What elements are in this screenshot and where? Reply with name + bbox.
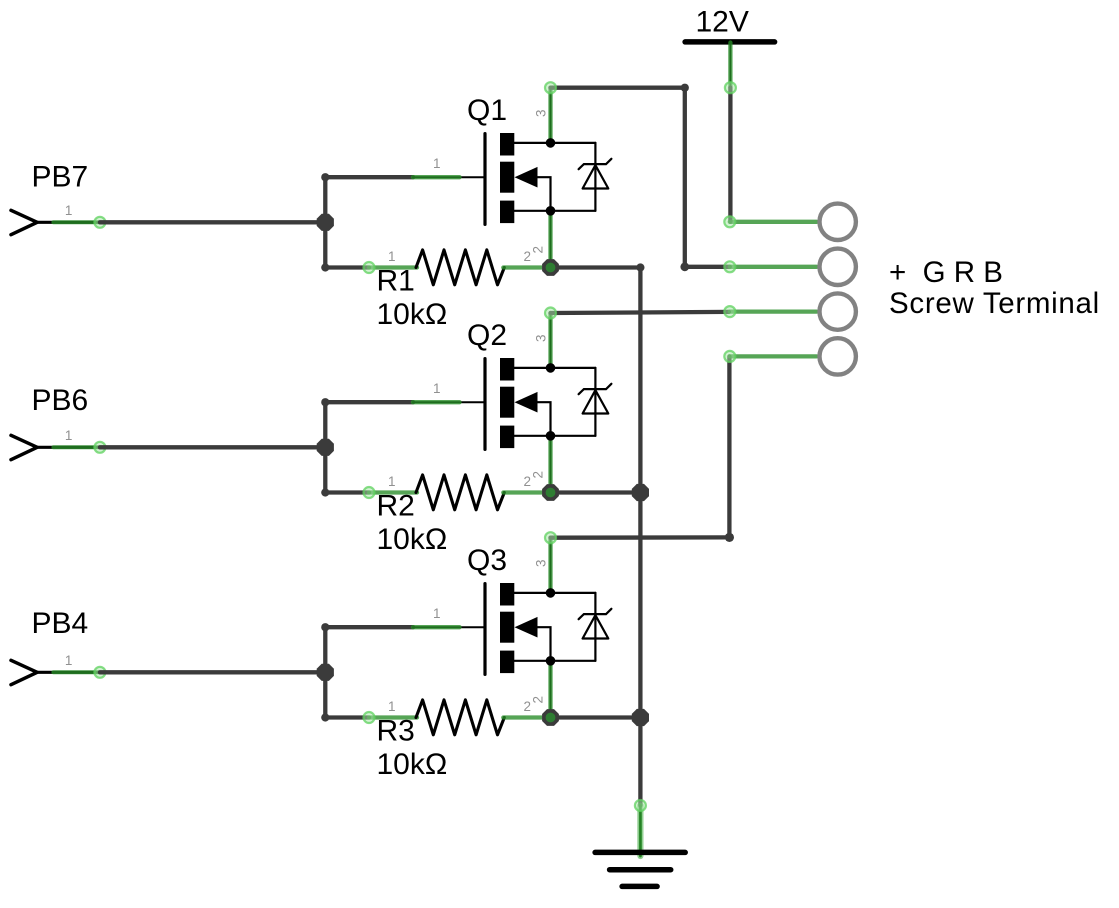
pin label 1 of PB6 (65, 428, 73, 443)
power symbol 12V bar (685, 39, 775, 45)
resistor R3 zigzag (416, 700, 504, 735)
terminal dot ground (635, 800, 646, 811)
pin label 2 of Q1 (rotated) (531, 246, 546, 254)
ground pin leg (639, 806, 641, 857)
transistor Q1 (N-MOSFET with body diode) (413, 88, 611, 268)
node bend Q2 gate (321, 398, 329, 406)
pin label 1 of PB7 (65, 203, 73, 218)
svg-text:10kΩ: 10kΩ (377, 523, 448, 556)
screw terminal lead G (730, 265, 817, 269)
svg-text:2: 2 (531, 246, 546, 254)
resistor R2 value label 10k (377, 523, 448, 556)
input connector PB6 chevron (11, 435, 37, 459)
wire to Q1 gate (325, 175, 413, 179)
terminal dot 12V (725, 82, 736, 93)
screw terminal lead R (730, 309, 817, 313)
screw terminal circle R (820, 293, 856, 329)
screw terminal circle + (12V) (820, 204, 856, 240)
wire PB6 to junction (100, 445, 325, 449)
svg-text:1: 1 (433, 606, 441, 621)
wire Q1 source junction to ground rail (551, 265, 641, 269)
svg-text:1: 1 (388, 249, 396, 264)
svg-text:3: 3 (534, 559, 549, 567)
svg-text:10kΩ: 10kΩ (377, 748, 448, 781)
ground symbol (595, 852, 685, 886)
terminal dot screw pin 1 (724, 216, 735, 227)
transistor Q2 (N-MOSFET with body diode) (413, 313, 611, 493)
wire ground rail (638, 268, 642, 806)
screw terminal label line 1 (889, 256, 1003, 289)
wire Q1 drain horizontal (551, 86, 685, 90)
transistor Q3 (N-MOSFET with body diode) (413, 538, 611, 718)
terminal dot Q2 pin 3 (545, 308, 556, 319)
node bend ground rail top (636, 263, 644, 271)
wire PB7 to junction (100, 220, 325, 224)
input connector PB7 label (32, 161, 89, 194)
pin label 2 of R3 (524, 699, 532, 714)
svg-text:R2: R2 (377, 490, 415, 523)
node bend R2 (321, 488, 329, 496)
svg-text:12V: 12V (696, 6, 749, 39)
node Q3 source junction (542, 709, 559, 726)
screw terminal circle B (820, 338, 856, 374)
pin label 1 of Q1 gate (433, 156, 441, 171)
node bend R1 (321, 263, 329, 271)
resistor R2 zigzag (416, 475, 504, 510)
terminal dot R1 pin 1 (364, 262, 375, 273)
node Q1 source junction (542, 259, 559, 276)
transistor Q3 label (467, 544, 507, 577)
svg-text:3: 3 (534, 334, 549, 342)
terminal dot R3 pin 1 (364, 712, 375, 723)
node bend Q1 gate (321, 173, 329, 181)
node junction ground rail / R2 row (632, 484, 649, 501)
pin label 1 of R1 (388, 249, 396, 264)
resistor R1 left leg (369, 265, 417, 269)
svg-text:10kΩ: 10kΩ (377, 298, 448, 331)
pin label 1 of PB4 (65, 653, 73, 668)
wire to R1 left lead (325, 265, 369, 269)
node bend Q3 drain rail bottom (725, 533, 734, 542)
svg-text:Screw Terminal: Screw Terminal (889, 287, 1100, 320)
node PB6 junction (317, 439, 334, 456)
screw terminal label line 2 (889, 287, 1100, 320)
node bend Q3 gate (321, 623, 329, 631)
resistor R1 value label 10k (377, 298, 448, 331)
wire left vertical Q2 gate/resistor (323, 402, 327, 492)
pin label 1 of Q3 gate (433, 606, 441, 621)
svg-text:R3: R3 (377, 715, 415, 748)
svg-text:1: 1 (433, 381, 441, 396)
resistor R3 left leg (369, 715, 417, 719)
wire to Q3 gate (325, 625, 413, 629)
node bend Q1 drain rail top (681, 84, 689, 92)
pin label 2 of R2 (524, 474, 532, 489)
wire Q1 drain rail down (683, 88, 687, 267)
svg-text:1: 1 (65, 653, 73, 668)
svg-text:1: 1 (65, 428, 73, 443)
wire Q2 drain horizontal (551, 312, 729, 313)
input connector PB4 label (32, 607, 89, 640)
pin label 1 of R3 (388, 699, 396, 714)
svg-text:3: 3 (534, 109, 549, 117)
svg-text:1: 1 (388, 474, 396, 489)
wire PB4 to junction (100, 670, 325, 674)
terminal dot Q3 pin 3 (545, 532, 556, 543)
terminal dot screw pin 4 (724, 351, 735, 362)
pin label 2 of Q3 (rotated) (531, 696, 546, 704)
input connector PB7 chevron (11, 210, 37, 234)
svg-text:1: 1 (65, 203, 73, 218)
svg-text:Q3: Q3 (467, 544, 507, 577)
wire to Q2 gate (325, 400, 413, 404)
input connector PB6 label (32, 384, 89, 417)
wire Q3 drain rail up to screw pin 4 (727, 356, 731, 537)
screw terminal circle G (820, 249, 856, 285)
power symbol 12V label (696, 6, 749, 39)
resistor R2 value label R2 (377, 490, 415, 523)
node PB7 junction (317, 214, 334, 231)
node Q2 source junction (542, 484, 559, 501)
node PB4 junction (317, 664, 334, 681)
input connector PB4 chevron (11, 660, 37, 684)
svg-text:+ G R B: + G R B (889, 256, 1003, 289)
svg-text:R1: R1 (377, 265, 415, 298)
terminal dot R2 pin 1 (364, 487, 375, 498)
resistor R3 value label R3 (377, 715, 415, 748)
terminal dot screw pin 3 (724, 306, 735, 317)
screw terminal lead B (730, 354, 817, 358)
resistor R1 right leg (503, 265, 550, 269)
input connector PB6 pin leg (37, 446, 98, 449)
svg-text:2: 2 (531, 471, 546, 479)
node bend R3 (321, 713, 329, 721)
svg-text:Q1: Q1 (467, 94, 507, 127)
terminal dot Q1 pin 3 (545, 82, 556, 93)
resistor R3 right leg (503, 715, 550, 719)
terminal dot screw pin 2 (724, 261, 735, 272)
svg-text:PB6: PB6 (32, 384, 89, 417)
resistor R2 right leg (503, 490, 550, 494)
terminal dot PB6 pin 1 (94, 442, 105, 453)
node bend Q1 drain rail bottom (680, 262, 689, 271)
resistor R1 zigzag (416, 250, 504, 285)
svg-text:PB4: PB4 (32, 607, 89, 640)
pin label 2 of R1 (524, 249, 532, 264)
screw terminal lead + (12V) (730, 220, 817, 224)
input connector PB4 pin leg (37, 671, 98, 674)
pin label 1 of Q2 gate (433, 381, 441, 396)
terminal dot PB7 pin 1 (94, 217, 105, 228)
wire left vertical Q3 gate/resistor (323, 627, 327, 717)
resistor R3 value label 10k (377, 748, 448, 781)
pin label 3 of Q2 (rotated) (534, 334, 549, 342)
transistor Q2 label (467, 319, 507, 352)
pin label 1 of R2 (388, 474, 396, 489)
resistor R1 value label R1 (377, 265, 415, 298)
resistor R2 left leg (369, 490, 417, 494)
wire to R2 left lead (325, 490, 369, 494)
svg-text:PB7: PB7 (32, 161, 89, 194)
svg-text:2: 2 (531, 696, 546, 704)
transistor Q1 label (467, 94, 507, 127)
power symbol 12V pin leg (729, 43, 731, 88)
wire to R3 left lead (325, 715, 369, 719)
wire Q1 drain rail to screw pin 2 (685, 265, 730, 269)
wire 12V rail down to screw terminal pin 1 (728, 88, 732, 222)
input connector PB7 pin leg (37, 221, 98, 224)
pin label 3 of Q1 (rotated) (534, 109, 549, 117)
wire Q3 source junction to ground rail (551, 715, 641, 719)
wire Q3 drain horizontal (551, 535, 730, 540)
node junction ground rail / R3 row (632, 709, 649, 726)
pin label 2 of Q2 (rotated) (531, 471, 546, 479)
pin label 3 of Q3 (rotated) (534, 559, 549, 567)
svg-text:1: 1 (433, 156, 441, 171)
wire Q2 source junction to ground rail (551, 490, 641, 494)
wire left vertical Q1 gate/resistor (323, 177, 327, 267)
svg-text:Q2: Q2 (467, 319, 507, 352)
svg-text:1: 1 (388, 699, 396, 714)
terminal dot PB4 pin 1 (94, 667, 105, 678)
